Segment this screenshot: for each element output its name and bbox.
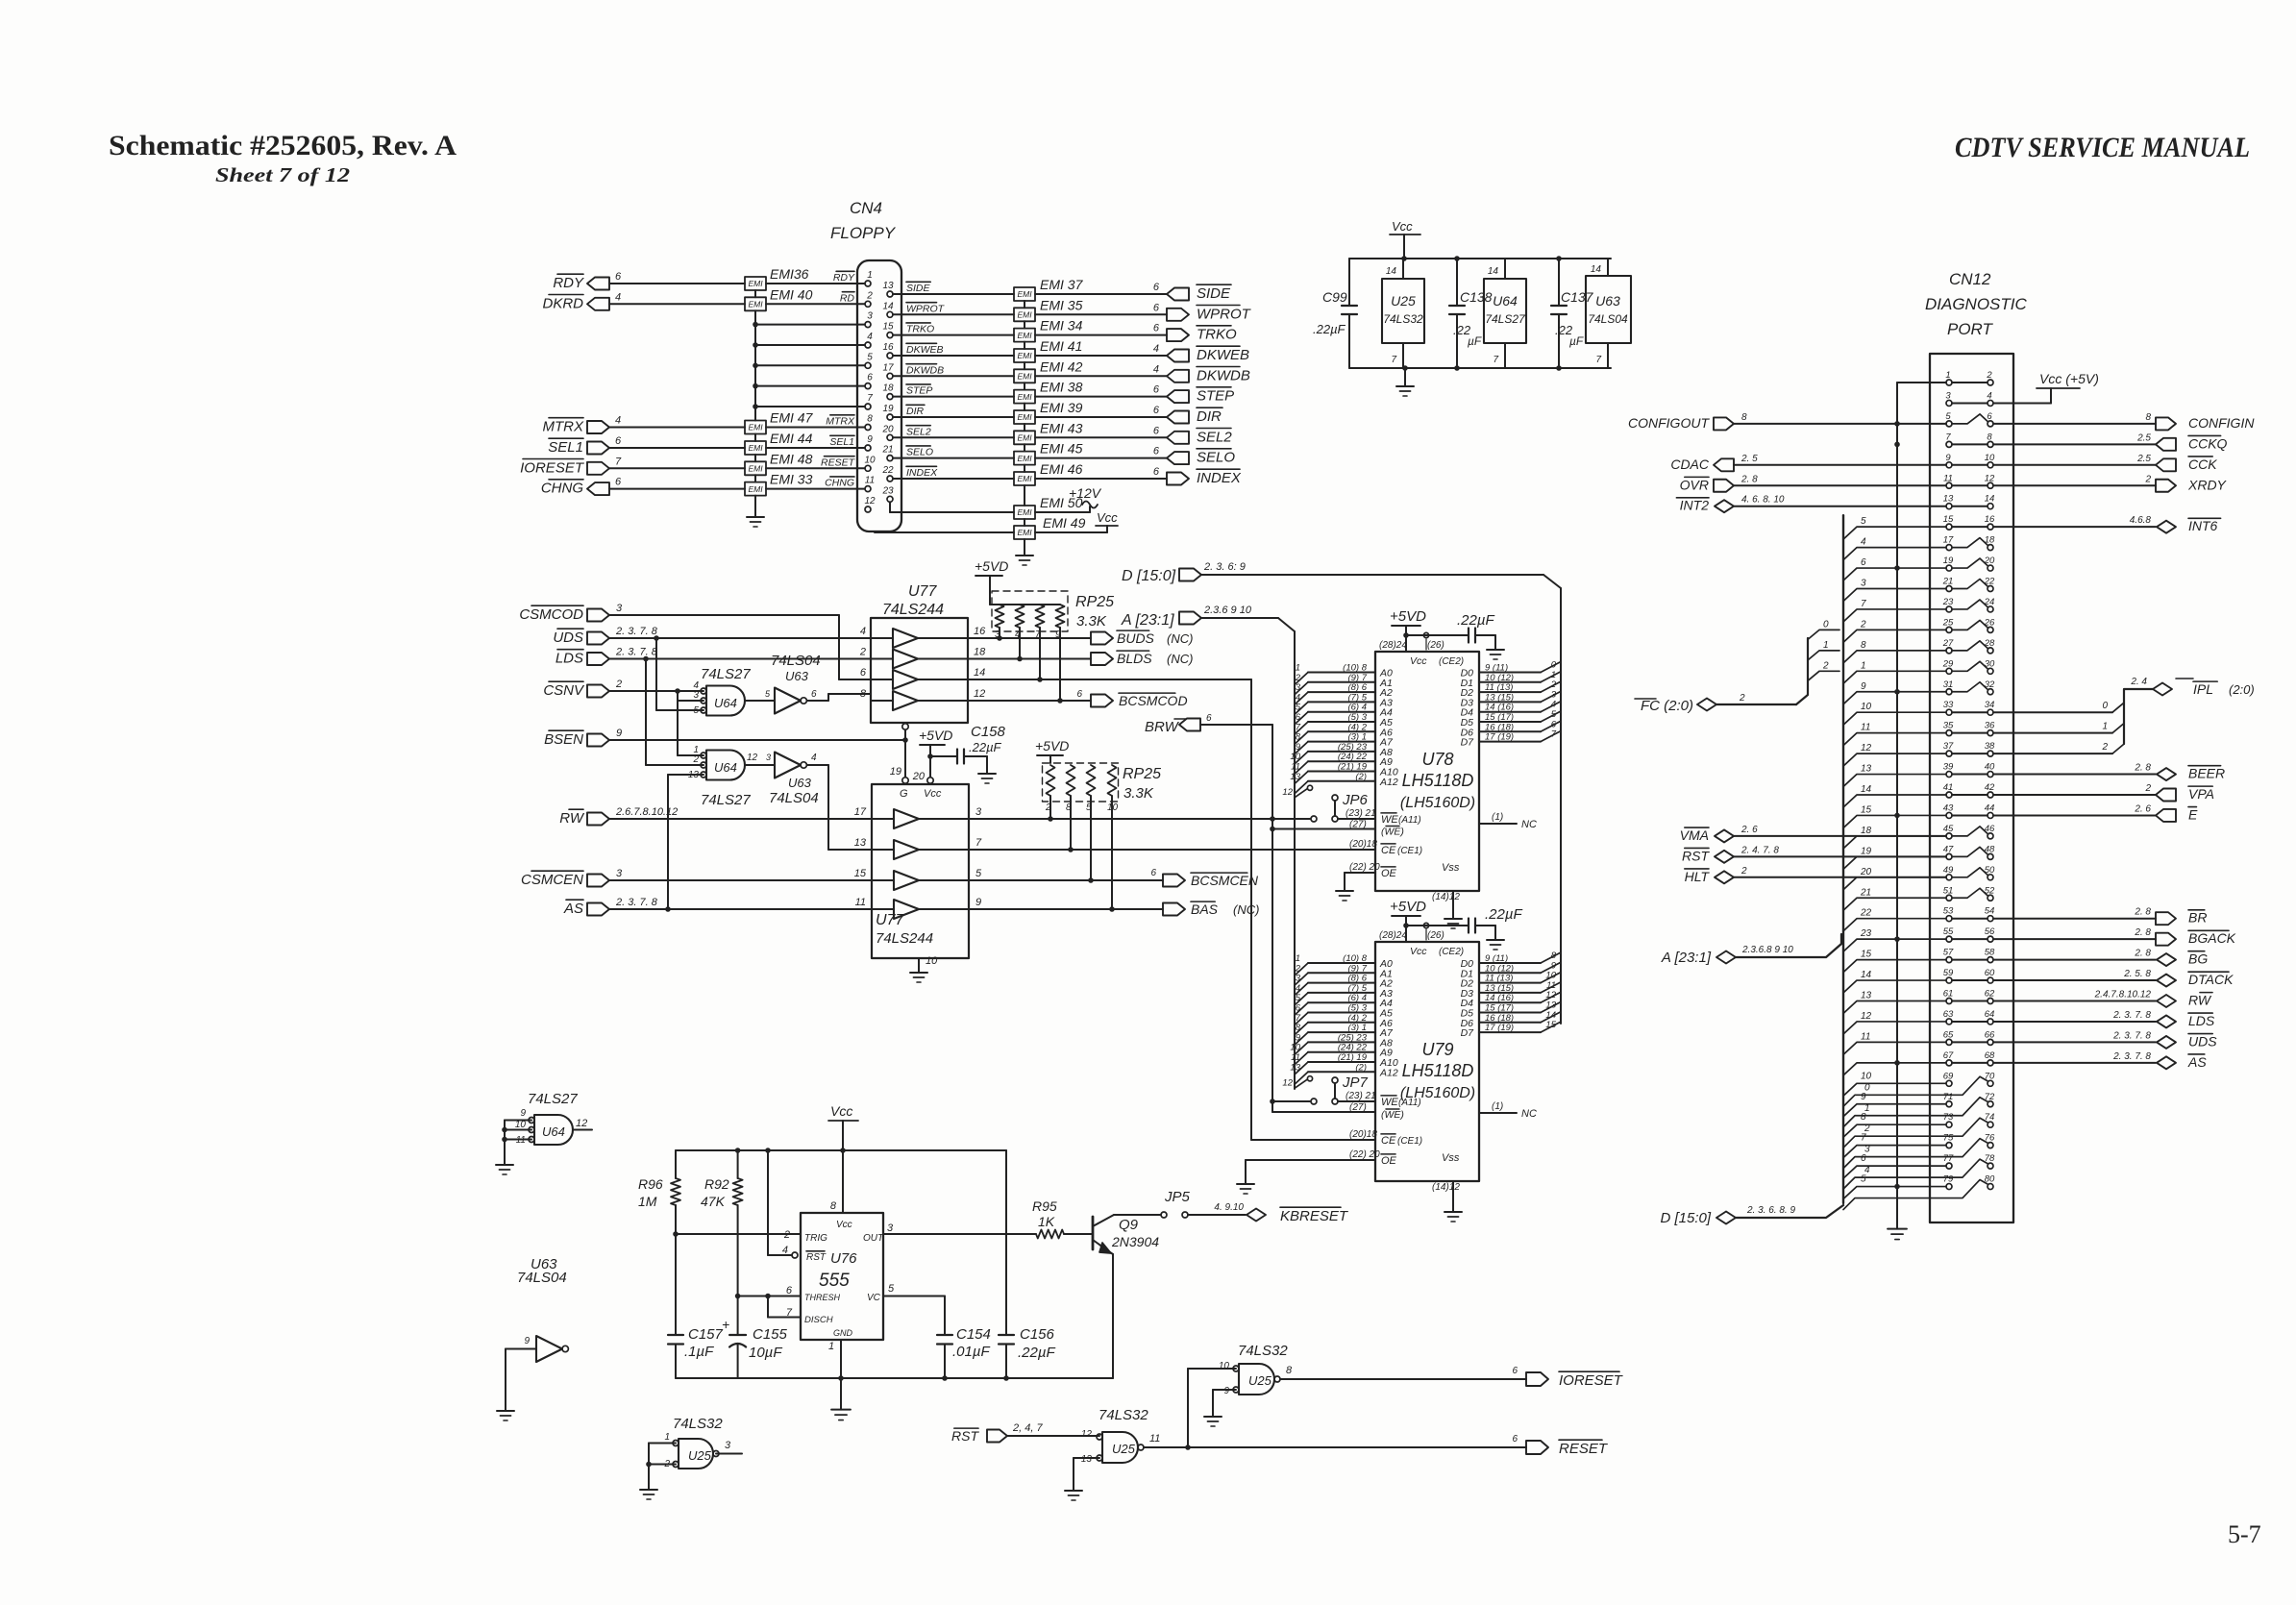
svg-text:DISCH: DISCH [804,1315,833,1325]
svg-text:74LS27: 74LS27 [701,792,751,808]
svg-text:(A11): (A11) [1398,815,1421,826]
svg-text:Vcc: Vcc [1410,946,1427,957]
svg-text:U79: U79 [1421,1040,1453,1059]
svg-text:+5VD: +5VD [919,728,952,743]
svg-text:39: 39 [1943,762,1954,773]
CN12 pin 23 [1946,606,1952,612]
svg-text:U77: U77 [908,583,937,600]
CN12 pin 33 [1946,709,1952,715]
svg-text:(28)24: (28)24 [1379,640,1407,651]
CN12 pin 59 [1946,977,1952,983]
svg-text:R96: R96 [638,1176,663,1192]
EMI filter EMI 40 [745,297,766,310]
svg-text:10: 10 [1985,453,1995,463]
wire gnd to CN4 pin 7 [755,406,865,407]
CN4 pin 17 [887,373,893,379]
svg-text:LH5118D: LH5118D [1402,771,1474,790]
svg-text:(1): (1) [1492,1101,1503,1112]
CN12 pin 40 [1987,772,1993,778]
svg-text:U63: U63 [1595,293,1620,309]
wire CN12 row 30 link [1952,979,1987,981]
svg-text:5: 5 [1945,411,1951,422]
svg-text:4: 4 [782,1245,788,1256]
svg-text:44: 44 [1985,802,1995,813]
U79 address pin A5 [1308,1012,1375,1014]
svg-text:13: 13 [1861,991,1872,1001]
wire to gate C [1187,1369,1189,1447]
svg-text:NC: NC [1521,819,1537,830]
buffer U77 ch6 [894,840,919,859]
svg-text:INT2: INT2 [1680,498,1710,513]
svg-text:EMI 37: EMI 37 [1040,277,1084,292]
svg-text:9: 9 [1223,1386,1229,1396]
svg-text:DIAGNOSTIC: DIAGNOSTIC [1925,295,2028,313]
svg-text:555: 555 [819,1271,850,1291]
svg-text:BCSMCOD: BCSMCOD [1119,693,1188,708]
svg-text:7: 7 [1945,432,1951,442]
wire THRESH [738,1296,801,1297]
wire CN4 pin 19 to EMI [893,416,1014,418]
svg-text:AS: AS [563,901,583,917]
svg-text:61: 61 [1943,989,1954,1000]
svg-text:20: 20 [912,771,926,782]
svg-text:3: 3 [725,1440,731,1451]
U25 C output wire [1280,1378,1526,1380]
CN12 pin 55 [1946,936,1952,942]
CN12 pin 53 [1946,916,1952,922]
svg-text:2. 3. 7. 8: 2. 3. 7. 8 [2112,1010,2151,1021]
svg-text:.22µF: .22µF [969,740,1002,754]
svg-text:DKWDB: DKWDB [1197,367,1250,383]
svg-text:Sheet 7 of 12: Sheet 7 of 12 [215,163,351,186]
wire CN12 pin 62 out [1993,1000,2156,1002]
svg-text:6: 6 [1150,868,1156,878]
IPL(2:0) arrow [2176,678,2193,679]
U78 address pin A9 [1308,760,1375,762]
fan stub to pin 73 [1843,1124,1946,1137]
wire [1035,334,1167,336]
capacitor C158 .22uF [930,755,957,757]
svg-text:6: 6 [1861,1153,1866,1164]
output flag BEER [2157,768,2176,780]
svg-text:19: 19 [1943,556,1954,566]
RP25 resistor 7 [1087,765,1096,796]
main ground 555 [840,1378,842,1403]
svg-text:2.3.6 9 10: 2.3.6 9 10 [1203,605,1252,616]
svg-text:(1): (1) [1492,812,1503,823]
CN12 pin 26 [1987,627,1993,632]
svg-text:2: 2 [1739,693,1745,704]
wire to Vcc [1035,531,1107,533]
CN4 pin 3 [865,322,871,328]
svg-text:31: 31 [1943,679,1954,690]
svg-text:C137: C137 [1561,289,1594,305]
CN12 pin 71 [1946,1101,1952,1107]
CN4 pin 1 [865,281,871,286]
input flag RW [587,813,609,826]
svg-text:(A11): (A11) [1398,1098,1421,1108]
svg-text:CCK: CCK [2188,457,2217,472]
svg-text:45: 45 [1943,824,1954,834]
fan stub to pin 17 [1843,548,1946,560]
wire RW [609,818,872,820]
wire CN12 pin 58 out [1993,959,2156,961]
svg-text:DIR: DIR [906,406,925,417]
svg-text:RESET: RESET [821,457,856,468]
wire [1035,457,1167,459]
EMI filter EMI 42 [1014,369,1035,383]
CN12 pin 6 [1987,421,1993,427]
RAM U79 data pin D5 [1479,1012,1541,1014]
RAM U79 data pin D4 [1479,1001,1541,1003]
CN12 pin 15 [1946,524,1952,530]
wire [1734,835,1946,837]
svg-text:CSNV: CSNV [543,682,585,699]
svg-text:C156: C156 [1020,1326,1055,1343]
svg-text:.22µF: .22µF [1457,612,1494,629]
CN12 pin 11 [1946,482,1952,488]
buffer U77 ch5 [894,809,919,828]
resistor R96 1M [675,1150,677,1178]
EMI filter EMI 34 [1014,329,1035,342]
RP25 stubs to rows [999,628,1000,638]
fan stub to pin 15 [1843,527,1946,539]
CN12 pin 54 [1987,916,1993,922]
CN12 pin 25 [1946,627,1952,632]
svg-text:2: 2 [1822,660,1829,671]
svg-text:WE: WE [1381,1097,1398,1108]
RAM U78 data pin D2 [1479,691,1541,693]
svg-text:15: 15 [854,868,867,879]
svg-text:EMI 47: EMI 47 [770,410,814,426]
svg-text:(22) 20: (22) 20 [1349,1149,1380,1160]
wire [1035,436,1167,438]
svg-text:65: 65 [1943,1029,1954,1040]
svg-text:10: 10 [515,1120,527,1130]
buffer U77 ch7 [894,871,919,890]
svg-text:EMI 38: EMI 38 [1040,380,1083,395]
svg-text:14: 14 [1386,266,1397,277]
svg-text:U25: U25 [1248,1373,1272,1388]
svg-text:71: 71 [1943,1092,1954,1102]
svg-text:SEL2: SEL2 [1197,429,1232,445]
wire [1035,396,1167,398]
wire buffer out 9 to BAS [969,908,1163,910]
svg-text:21: 21 [1860,887,1871,898]
svg-text:Schematic #252605, Rev. A: Schematic #252605, Rev. A [109,130,457,161]
svg-text:12: 12 [1861,1011,1872,1022]
svg-text:7: 7 [1861,1133,1866,1144]
input flag VMA [1715,829,1734,842]
svg-text:66: 66 [1985,1029,1995,1040]
svg-text:(26): (26) [1427,930,1444,941]
fan stub to pin 61 [1843,1001,1946,1014]
U78 address pin A10 [1308,771,1375,773]
wire gnd to CN4 pin 6 [755,385,865,387]
wire [1734,506,1946,507]
wire CN12 row 19 link [1952,753,1987,754]
wire [609,447,745,449]
CN12 pin 9 [1946,462,1952,468]
svg-text:D7: D7 [1461,737,1475,749]
svg-text:(23) 21: (23) 21 [1346,808,1376,819]
svg-text:Vcc: Vcc [1097,510,1118,525]
buffer U77 ch8 [894,900,919,919]
wire CN12 row 17 link [1952,711,1987,713]
svg-text:A12: A12 [1379,777,1398,788]
wire CN12 pin 8 out [1993,443,2156,445]
CN4 pin 11 [865,486,871,492]
svg-text:VC: VC [867,1293,881,1303]
CN12 pin 74 [1987,1122,1993,1127]
svg-text:CDTV SERVICE MANUAL: CDTV SERVICE MANUAL [1955,132,2250,163]
svg-text:10µF: 10µF [749,1345,782,1361]
fan stub to pin 65 [1843,1042,1946,1054]
U79 address pin A9 [1308,1051,1375,1053]
CN4 pin 7 [865,404,871,409]
svg-text:6: 6 [615,477,622,488]
wire CN12 row 32 link [1952,1021,1987,1023]
U78 address pin A3 [1308,701,1375,703]
svg-text:12: 12 [576,1118,587,1129]
svg-text:CE: CE [1381,1135,1396,1147]
output flag BCSMCEN [1163,875,1185,887]
wire CN12 pin 56 out [1993,938,2156,940]
buffer U77 ch2 [893,650,918,669]
svg-text:8: 8 [1286,1365,1293,1376]
CN12 pin 18 [1987,545,1993,551]
svg-text:Vcc: Vcc [836,1220,852,1230]
RAM U78 data pin D5 [1479,721,1541,723]
EMI filter EMI 50 [1014,506,1035,519]
svg-text:40: 40 [1985,762,1995,773]
wire CSNV branch to gate1 pin3 [677,691,679,701]
U79 address pin A2 [1308,982,1375,984]
svg-text:BG: BG [2188,951,2208,967]
svg-text:23: 23 [1860,928,1872,939]
svg-text:+5VD: +5VD [1035,738,1069,753]
fan stub to pin 67 [1843,1063,1946,1075]
fan stub to pin 51 [1843,898,1946,910]
svg-text:5: 5 [888,1283,895,1295]
input flag SEL1 [587,442,609,455]
svg-text:(WE): (WE) [1381,1109,1404,1121]
svg-text:59: 59 [1943,968,1954,978]
svg-text:2.5: 2.5 [2136,454,2151,464]
svg-text:SELO: SELO [906,447,933,458]
svg-text:RW: RW [559,810,585,827]
output flag INT6 [2157,521,2176,533]
svg-text:(NC): (NC) [1167,652,1193,666]
U77 G/Vcc pins [902,724,908,729]
svg-text:SIDE: SIDE [906,283,931,294]
output flag BGACK [2156,933,2176,946]
resistor R95 1K [1036,1230,1064,1239]
svg-text:12: 12 [1081,1429,1093,1440]
capacitor C99 [1348,259,1350,306]
svg-text:2: 2 [866,290,873,301]
FC bus wires [1716,704,1796,705]
svg-text:33: 33 [1943,700,1954,710]
wire CN12 row 28 link [1952,938,1987,940]
fan stub to pin 21 [1843,589,1946,602]
U79 address pin A3 [1308,992,1375,994]
input flag BSEN [587,734,609,747]
svg-text:PORT: PORT [1947,320,1994,338]
fan stub to pin 47 [1843,856,1946,869]
fan stub to pin 76 [1843,1139,1987,1169]
bus wire A [1201,617,1278,619]
svg-text:35: 35 [1943,721,1954,731]
svg-text:2N3904: 2N3904 [1111,1234,1159,1249]
svg-text:5: 5 [867,352,873,362]
wire CSNV branch to gate2 pin1 [677,701,679,755]
svg-text:74LS27: 74LS27 [528,1091,578,1107]
svg-text:RD: RD [840,292,855,304]
fan stub to pin 57 [1843,960,1946,973]
svg-text:2. 5: 2. 5 [1741,454,1758,464]
svg-text:EMI 48: EMI 48 [770,451,813,466]
svg-text:6: 6 [1987,411,1992,422]
svg-text:57: 57 [1943,948,1954,958]
svg-text:RESET: RESET [1559,1441,1609,1457]
svg-text:Vcc: Vcc [1410,655,1427,667]
CN12 pin 10 [1987,462,1993,468]
svg-text:7: 7 [1551,729,1557,740]
IC U76 555 timer [801,1213,883,1340]
ground [754,511,756,517]
svg-text:BRW: BRW [1145,719,1180,735]
RP25 resistor 5 [1047,765,1055,796]
wire buffer out 14 to RAM CE net [968,679,1251,680]
svg-text:RDY: RDY [553,275,584,291]
fan stub to pin 75 [1843,1146,1946,1158]
power rail top [1349,258,1611,259]
svg-text:MTRX: MTRX [543,419,584,435]
svg-text:R92: R92 [704,1176,729,1192]
svg-text:22: 22 [881,465,894,476]
output flag TRKO [1167,329,1189,341]
svg-text:14: 14 [882,301,894,311]
U78 address pin A2 [1308,691,1375,693]
RAM U78 data pin D3 [1479,701,1541,703]
svg-text:21: 21 [1942,577,1954,587]
EMI filter EMI 41 [1014,349,1035,362]
wire buffer out 3 (BRW net) [969,818,1310,820]
svg-text:74LS04: 74LS04 [771,653,821,669]
CN4 pin 22 [887,476,893,481]
svg-text:2. 8: 2. 8 [2134,763,2151,774]
svg-text:(NC): (NC) [1233,902,1259,917]
svg-text:47K: 47K [701,1194,726,1209]
svg-text:16: 16 [974,626,986,637]
svg-text:µF: µF [1468,334,1482,348]
svg-text:RDY: RDY [833,272,855,284]
svg-text:RP25: RP25 [1123,766,1161,782]
svg-text:6: 6 [1076,689,1082,700]
fan stub to pin 78 [1843,1159,1987,1189]
CN12 pin 36 [1987,730,1993,736]
svg-text:16: 16 [1985,514,1995,525]
fan stub to pin 72 [1843,1098,1987,1127]
capacitor C155 10uF [737,1296,739,1336]
svg-text:2.3.6.8 9 10: 2.3.6.8 9 10 [1741,945,1793,955]
svg-text:EMI: EMI [1017,289,1032,299]
wire UDS [609,637,871,639]
svg-text:7: 7 [1595,355,1601,365]
svg-text:2. 3. 7. 8: 2. 3. 7. 8 [615,626,658,637]
CN12 pin 29 [1946,668,1952,674]
CN12 pin 70 [1987,1080,1993,1086]
svg-text:WE: WE [1381,814,1398,826]
RAM U79 data pin D3 [1479,992,1541,994]
output flag DTACK [2157,975,2176,987]
svg-text:17: 17 [854,806,867,818]
svg-text:6: 6 [1153,302,1160,313]
svg-text:2, 4, 7: 2, 4, 7 [1012,1422,1043,1434]
svg-text:9: 9 [616,728,622,739]
CN4 pin 21 [887,456,893,461]
svg-text:74LS32: 74LS32 [673,1416,723,1432]
CN12 pin 34 [1987,709,1993,715]
wire CSNV [609,690,704,692]
output flag CCK [2156,458,2176,471]
wire CN12 row 27 link [1952,918,1987,920]
CN4 pin 5 [865,362,871,368]
svg-text:6: 6 [1153,323,1160,334]
CN12 pin 43 [1946,812,1952,818]
svg-text:14: 14 [974,667,985,679]
svg-text:2. 8: 2. 8 [2134,927,2151,938]
svg-text:EMI 43: EMI 43 [1040,420,1083,435]
svg-text:(28)24: (28)24 [1379,930,1407,941]
svg-text:Vcc: Vcc [1392,219,1413,234]
output flag STEP [1167,390,1189,403]
CN4 pin 16 [887,353,893,358]
input flag LDS [587,653,609,665]
svg-text:4: 4 [867,332,873,342]
wire CN4 pin 23 to EMI50 [889,502,891,512]
svg-text:2. 4: 2. 4 [2130,677,2147,687]
svg-text:EMI: EMI [748,484,763,494]
svg-text:VPA: VPA [2188,786,2214,802]
output flag VPA [2156,789,2176,802]
fan stub to pin 59 [1843,980,1946,993]
wire UDS branch to gate1 pin5 [655,638,657,710]
EMI filter EMI 35 [1014,308,1035,321]
EMI filter EMI 49 [1014,526,1035,539]
svg-text:3: 3 [616,603,623,614]
U79 address pin A7 [1308,1031,1375,1033]
wire buffer out 5 to BCSMCEN [969,879,1163,881]
CN12 pin 44 [1987,812,1993,818]
svg-text:3.3K: 3.3K [1076,613,1107,630]
RAM U79 data pin D6 [1479,1022,1541,1024]
svg-text:6: 6 [1861,557,1866,568]
fan stub to pin 19 [1843,568,1946,580]
svg-text:37: 37 [1943,741,1954,752]
Q9 emitter wire [1110,1252,1113,1254]
CN12 pin 61 [1946,999,1952,1004]
svg-text:6: 6 [786,1285,793,1296]
svg-text:74LS04: 74LS04 [769,790,819,806]
wire CN12 row 34 link [1952,1062,1987,1064]
U79 CE wire [1251,1139,1375,1141]
input flag UDS [587,632,609,645]
svg-text:5-7: 5-7 [2228,1520,2261,1548]
svg-text:UDS: UDS [553,630,583,646]
svg-text:EMI 42: EMI 42 [1040,358,1083,374]
